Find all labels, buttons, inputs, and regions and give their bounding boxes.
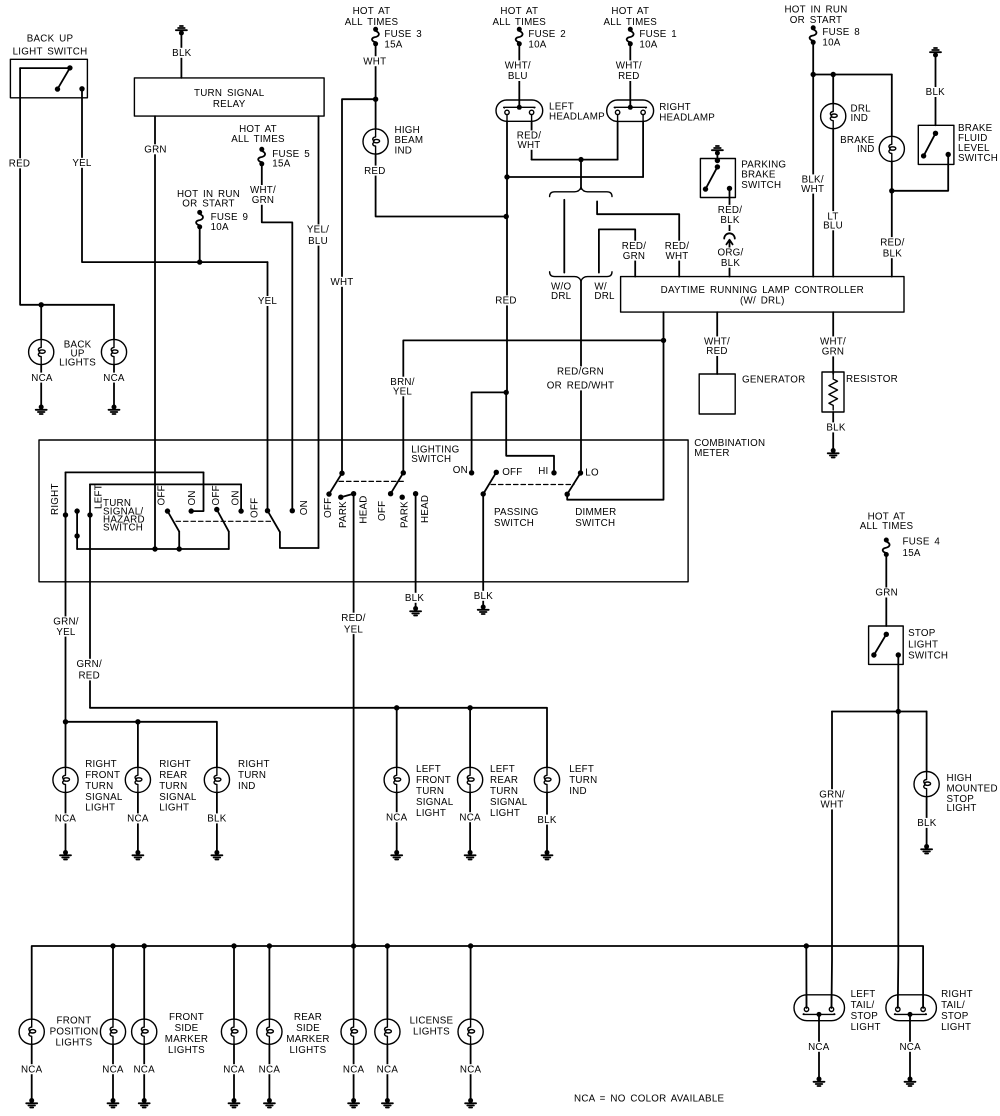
node rear side marker tap 2 xyxy=(351,943,356,948)
svg-text:LIGHT: LIGHT xyxy=(85,802,115,813)
label FUSE 1 10A xyxy=(639,29,677,50)
svg-text:NCA: NCA xyxy=(377,1064,399,1075)
svg-text:OFF: OFF xyxy=(502,467,522,478)
svg-text:SWITCH: SWITCH xyxy=(494,518,534,529)
svg-text:TURN: TURN xyxy=(490,786,518,797)
left turn rail xyxy=(90,708,547,768)
wire LT BLU DRL ind to controller xyxy=(832,129,834,277)
svg-text:BRAKE: BRAKE xyxy=(741,169,776,180)
svg-text:NCA: NCA xyxy=(223,1064,245,1075)
wire GRN/WHT to left tail xyxy=(831,712,834,1009)
ground front side marker right bulb xyxy=(229,1098,240,1108)
ground above parking brake switch xyxy=(712,146,723,156)
label BLK lighting xyxy=(403,593,425,604)
svg-text:SIGNAL: SIGNAL xyxy=(490,797,528,808)
label DRL IND xyxy=(851,103,872,124)
svg-text:HEAD: HEAD xyxy=(420,495,431,523)
wire RED to dimmer HI xyxy=(506,392,554,472)
label NCA front side marker right bulb xyxy=(223,1064,245,1075)
svg-text:HI: HI xyxy=(538,466,548,477)
svg-text:RIGHT: RIGHT xyxy=(941,989,973,1000)
node RED high beam junction xyxy=(504,214,509,219)
high beam indicator bulb xyxy=(363,129,388,154)
wire rear side marker left drop xyxy=(268,946,270,1019)
node WHT branch xyxy=(373,97,378,102)
svg-text:OFF: OFF xyxy=(377,501,388,521)
svg-text:BACK UP: BACK UP xyxy=(27,34,74,45)
svg-text:LIGHTS: LIGHTS xyxy=(56,1037,93,1048)
svg-text:FRONT: FRONT xyxy=(169,1012,204,1023)
right front turn signal bulb xyxy=(53,767,78,792)
svg-text:BLK: BLK xyxy=(926,87,945,98)
wire RED branch to passing ON xyxy=(472,392,507,472)
label BRAKE IND xyxy=(840,135,875,155)
lighting switch pole B arm xyxy=(391,473,404,494)
svg-text:WHT: WHT xyxy=(801,184,824,195)
label WHT/RED generator xyxy=(703,336,732,357)
svg-text:WHT/: WHT/ xyxy=(505,61,531,72)
wire front side marker left drop xyxy=(143,946,145,1019)
label RED/GRN OR RED/WHT xyxy=(547,366,615,391)
node fuse8 junction xyxy=(811,72,816,77)
brake indicator bulb xyxy=(879,136,904,161)
wire BLK relay ground xyxy=(180,34,182,78)
turn signal centre arm xyxy=(76,511,78,549)
turn signal OFF2 contact xyxy=(214,507,219,512)
svg-text:REAR: REAR xyxy=(294,1012,322,1023)
ground above turn signal relay xyxy=(176,26,187,36)
ground above brake fluid level switch xyxy=(930,48,941,58)
wire BLK resistor to ground xyxy=(832,412,834,450)
wire controller to dimmer common xyxy=(567,312,663,500)
turn signal LEFT contact xyxy=(87,512,92,517)
svg-text:OR START: OR START xyxy=(790,15,842,26)
wire inner terminals common xyxy=(532,159,618,161)
svg-text:NCA: NCA xyxy=(343,1064,365,1075)
wire tap to brace xyxy=(580,160,582,189)
wire GRN/RED left contact output xyxy=(89,484,91,707)
svg-text:ALL TIMES: ALL TIMES xyxy=(860,521,914,532)
svg-text:WHT/: WHT/ xyxy=(616,61,642,72)
fuse F5 xyxy=(258,147,265,167)
svg-text:HEAD: HEAD xyxy=(359,495,370,523)
svg-text:SWITCH: SWITCH xyxy=(575,518,615,529)
wire license left drop xyxy=(386,946,388,1019)
svg-text:ALL TIMES: ALL TIMES xyxy=(231,134,285,145)
generator G1 xyxy=(699,374,735,414)
svg-text:TURN: TURN xyxy=(159,781,187,792)
label BLK relay xyxy=(171,48,193,59)
hazard pole1 arm xyxy=(168,511,180,531)
svg-text:RIGHT: RIGHT xyxy=(659,102,691,113)
svg-text:BLK: BLK xyxy=(537,815,556,826)
stop light switch S4 xyxy=(869,626,904,664)
label GRN/RED xyxy=(75,659,104,682)
turn signal relay K1 xyxy=(134,78,324,116)
svg-text:GRN/: GRN/ xyxy=(76,659,102,670)
svg-text:ALL TIMES: ALL TIMES xyxy=(603,17,657,28)
wire left rear turn drop xyxy=(469,708,471,768)
label W/O DRL xyxy=(551,281,572,302)
node brake fluid switch junction xyxy=(889,188,894,193)
wire right rear turn to ground xyxy=(137,793,139,853)
svg-text:RIGHT: RIGHT xyxy=(85,759,117,770)
right turn indicator bulb xyxy=(204,767,229,792)
svg-text:BLU: BLU xyxy=(823,221,843,232)
label GRN stop xyxy=(875,588,898,599)
tail light bus xyxy=(32,946,923,1019)
ground high mounted stop light xyxy=(921,844,932,854)
wire right tail to ground xyxy=(909,1015,911,1079)
front position light left bulb xyxy=(19,1019,44,1044)
svg-text:SWITCH: SWITCH xyxy=(741,180,781,191)
label RED/GRN drl xyxy=(620,241,649,262)
node RED passing branch xyxy=(504,390,509,395)
label WHT fuse3 xyxy=(363,56,386,67)
lighting switch PARK A contact xyxy=(338,495,343,500)
svg-text:STOP: STOP xyxy=(908,628,936,639)
svg-text:FRONT: FRONT xyxy=(416,775,451,786)
node GRN common xyxy=(152,546,157,551)
svg-text:NCA: NCA xyxy=(31,373,53,384)
wire YEL/BLU relay to hazard pole xyxy=(318,116,320,548)
node hazard pole1 common xyxy=(177,546,182,551)
left turn indicator bulb xyxy=(534,767,559,792)
svg-text:REAR: REAR xyxy=(490,775,518,786)
wire to DRL IND xyxy=(832,75,834,104)
label NCA legend xyxy=(574,1094,725,1105)
back up light bulb right xyxy=(101,339,126,364)
passing switch ON contact xyxy=(469,470,474,475)
wire left tail to ground xyxy=(818,1015,820,1079)
node left front turn xyxy=(394,705,399,710)
svg-text:WHT: WHT xyxy=(517,140,540,151)
wire W/ DRL branch to RED/WHT xyxy=(597,201,679,276)
label LO xyxy=(585,467,599,478)
ground left rear turn light xyxy=(465,850,476,860)
label NCA right front turn xyxy=(54,813,76,824)
lighting switch pole A arm xyxy=(329,473,342,494)
label RED main xyxy=(495,295,517,306)
svg-text:TAIL/: TAIL/ xyxy=(941,1000,965,1011)
wire right front turn drop xyxy=(65,722,67,768)
wire to brake ind xyxy=(891,75,893,137)
label DAYTIME RUNNING LAMP CONTROLLER xyxy=(661,285,864,307)
wire front position right drop xyxy=(112,946,114,1019)
wire front position light left bulb to ground xyxy=(31,1044,33,1100)
label NCA front position light right bulb xyxy=(102,1064,124,1075)
turn signal OFF1 contact xyxy=(165,508,170,513)
DRL indicator bulb xyxy=(821,104,846,129)
label RIGHT REAR TURN SIGNAL LIGHT xyxy=(159,759,197,813)
label GRN xyxy=(144,144,167,155)
svg-text:BLK: BLK xyxy=(917,818,936,829)
parking brake switch arm contact xyxy=(703,186,708,191)
turn signal right rail xyxy=(66,471,204,473)
combination meter box xyxy=(39,440,688,582)
wire right headlamp inner terminal xyxy=(617,121,619,159)
svg-text:SIGNAL: SIGNAL xyxy=(159,792,197,803)
svg-text:MARKER: MARKER xyxy=(286,1034,329,1045)
stop light switch arm contact xyxy=(871,652,876,657)
front side marker left bulb xyxy=(132,1019,157,1044)
svg-text:BLK: BLK xyxy=(721,258,740,269)
left tail/stop light xyxy=(794,995,845,1021)
label HOT AT ALL TIMES fuse3 xyxy=(345,6,399,28)
svg-text:PARK: PARK xyxy=(399,501,410,528)
svg-text:TURN SIGNAL: TURN SIGNAL xyxy=(194,88,265,99)
wire RED/GRN OR RED/WHT to dimmer LO xyxy=(580,281,582,473)
wire right back up light to ground xyxy=(113,365,115,407)
svg-text:ON: ON xyxy=(187,490,198,505)
wire license light left bulb to ground xyxy=(386,1044,388,1100)
ground license light left bulb xyxy=(382,1098,393,1108)
label HIGH BEAM IND xyxy=(395,125,424,156)
svg-text:LIGHT: LIGHT xyxy=(490,808,520,819)
wire RED/BLK brake ind to controller xyxy=(891,162,893,277)
stop light switch arm xyxy=(874,634,886,655)
node stop light branch xyxy=(896,709,901,714)
label HOT AT ALL TIMES fuse4 xyxy=(860,511,914,532)
wire RED/BLK parking brake to controller xyxy=(729,188,731,276)
svg-text:IND: IND xyxy=(851,113,869,124)
label YEL hazard xyxy=(256,296,278,307)
svg-text:DAYTIME RUNNING LAMP CONTROLLE: DAYTIME RUNNING LAMP CONTROLLER xyxy=(661,285,864,296)
svg-text:SWITCH: SWITCH xyxy=(908,651,948,662)
node right rear turn xyxy=(135,719,140,724)
right tail/stop light xyxy=(886,995,937,1021)
label FRONT POSITION LIGHTS xyxy=(50,1016,99,1049)
ground front position light left bulb xyxy=(26,1098,37,1108)
label ON passing xyxy=(453,465,468,476)
label WHT/GRN xyxy=(249,185,278,206)
wire WHT/RED controller to generator xyxy=(716,312,718,374)
label OFF passing xyxy=(502,467,522,478)
svg-text:NCA: NCA xyxy=(460,1064,482,1075)
svg-text:ON: ON xyxy=(230,490,241,505)
svg-text:ALL TIMES: ALL TIMES xyxy=(492,17,546,28)
label WHT/BLU xyxy=(503,60,532,82)
svg-text:DRL: DRL xyxy=(594,291,615,302)
label RED xyxy=(8,158,30,169)
label RIGHT FRONT TURN SIGNAL LIGHT xyxy=(85,759,123,813)
dimmer switch arm xyxy=(567,473,580,494)
label STOP LIGHT SWITCH xyxy=(908,628,948,662)
svg-text:BLK: BLK xyxy=(207,814,226,825)
node YEL junction xyxy=(197,259,202,264)
wire W/O DRL branch xyxy=(563,200,565,273)
wire BLK/WHT fuse8 to controller xyxy=(812,42,814,276)
left headlamp xyxy=(496,100,543,121)
brake fluid switch pole contact xyxy=(933,131,938,136)
stop light branch rail xyxy=(832,711,927,713)
wire YEL from back up light switch xyxy=(82,89,268,262)
svg-text:RIGHT: RIGHT xyxy=(159,759,191,770)
label BACK UP LIGHTS xyxy=(59,340,96,369)
hazard pole3 arm xyxy=(268,511,280,532)
label BLK left turn ind xyxy=(536,815,558,826)
label NCA front position light left bulb xyxy=(21,1064,43,1075)
svg-text:OFF: OFF xyxy=(211,485,222,505)
label COMBINATION METER xyxy=(694,438,765,459)
wire front side marker right drop xyxy=(233,946,235,1019)
label RIGHT TAIL/STOP LIGHT xyxy=(941,989,973,1033)
label W/ DRL xyxy=(594,281,615,302)
label BRAKE FLUID LEVEL SWITCH xyxy=(958,123,998,164)
dimmer switch HI contact xyxy=(551,470,556,475)
svg-text:RIGHT: RIGHT xyxy=(238,759,270,770)
lighting switch pole A arm contact xyxy=(326,491,331,496)
wire front position light right bulb to ground xyxy=(112,1044,114,1100)
node license tap 1 xyxy=(385,943,390,948)
parking brake switch S3 xyxy=(700,159,735,198)
svg-text:RED: RED xyxy=(364,166,385,177)
svg-text:RIGHT: RIGHT xyxy=(50,483,61,515)
fuse F3 xyxy=(372,27,379,47)
back up light switch contact xyxy=(67,65,72,70)
wire left front turn to ground xyxy=(396,793,398,853)
svg-text:LO: LO xyxy=(585,467,599,478)
label LEFT REAR TURN SIGNAL LIGHT xyxy=(490,764,528,819)
right headlamp xyxy=(607,100,654,121)
svg-text:FRONT: FRONT xyxy=(85,770,120,781)
node front side marker tap 2 xyxy=(231,943,236,948)
svg-text:FRONT: FRONT xyxy=(57,1016,92,1027)
front side marker right bulb xyxy=(221,1019,246,1044)
svg-text:RED: RED xyxy=(9,159,30,170)
wire right turn ind to ground xyxy=(216,793,218,853)
ground right front turn light xyxy=(60,850,71,860)
daytime running lamp controller U1 xyxy=(621,277,904,313)
label ORG/BLK xyxy=(716,248,745,269)
ground front position light right bulb xyxy=(108,1098,119,1108)
label GENERATOR xyxy=(742,375,805,386)
label NCA right back up xyxy=(103,373,125,384)
svg-text:STOP: STOP xyxy=(851,1011,879,1022)
parking brake switch ground stub xyxy=(716,154,718,160)
brake fluid switch output contact xyxy=(946,152,951,157)
svg-text:BLU: BLU xyxy=(508,71,528,82)
label LIGHTING SWITCH xyxy=(411,444,459,465)
node RED junction headlamps xyxy=(504,174,509,179)
svg-text:BLK: BLK xyxy=(474,591,493,602)
node license tap 2 xyxy=(468,943,473,948)
wire right headlamp outer terminal xyxy=(642,121,644,177)
svg-text:10A: 10A xyxy=(639,39,657,50)
wire BLK passing to ground xyxy=(482,494,484,605)
lighting switch pole A pivot xyxy=(339,471,344,476)
svg-text:OFF: OFF xyxy=(249,498,260,518)
svg-text:HIGH: HIGH xyxy=(947,773,973,784)
wire right front turn to ground xyxy=(65,793,67,853)
ground passing switch xyxy=(478,605,489,615)
turn signal ON1 contact xyxy=(189,508,194,513)
wire RED high beam ind xyxy=(376,154,507,216)
label HOT AT ALL TIMES fuse2 xyxy=(492,6,546,28)
label FUSE 8 10A xyxy=(822,27,860,48)
svg-text:SWITCH: SWITCH xyxy=(411,454,451,465)
node front position tap xyxy=(110,943,115,948)
svg-text:15A: 15A xyxy=(903,548,921,559)
label BLK right turn ind xyxy=(206,813,228,824)
wire left rear turn to ground xyxy=(469,793,471,853)
turn signal left rail to ON2 xyxy=(240,484,242,511)
hazard ON3 contact xyxy=(290,508,295,513)
passing switch OFF contact xyxy=(494,470,499,475)
svg-text:METER: METER xyxy=(694,448,730,459)
wire junction to brake fluid switch xyxy=(892,164,948,190)
svg-text:NCA: NCA xyxy=(133,1064,155,1075)
svg-text:OR START: OR START xyxy=(182,198,234,209)
node left rear turn xyxy=(467,705,472,710)
svg-text:SWITCH: SWITCH xyxy=(958,153,998,164)
back up light bulb left xyxy=(29,339,54,364)
back up light switch S1 xyxy=(10,59,87,98)
label BLK stop light xyxy=(916,818,938,829)
hazard OFF3 contact xyxy=(265,508,270,513)
svg-text:LIGHTS: LIGHTS xyxy=(413,1027,450,1038)
label BLK brake fluid xyxy=(924,87,946,98)
svg-text:NCA: NCA xyxy=(103,373,125,384)
svg-text:GRN: GRN xyxy=(623,251,646,262)
label WHT lighting xyxy=(330,277,353,288)
wire GRN relay to turn signal switch xyxy=(154,116,156,549)
svg-text:TURN: TURN xyxy=(416,786,444,797)
ground front side marker left bulb xyxy=(139,1098,150,1108)
brake fluid switch arm xyxy=(924,133,936,156)
svg-text:IND: IND xyxy=(569,786,587,797)
label NCA front side marker left bulb xyxy=(133,1064,155,1075)
svg-text:IND: IND xyxy=(395,145,413,156)
label HI xyxy=(538,466,548,477)
svg-text:BLK: BLK xyxy=(405,593,424,604)
inline connector ORG/BLK xyxy=(723,231,736,248)
ground left tail light xyxy=(814,1077,825,1087)
hazard pole2 arm to rail xyxy=(228,532,230,549)
fuse F9 xyxy=(196,210,203,230)
back up light switch arm contact xyxy=(55,86,60,91)
svg-text:OFF: OFF xyxy=(157,485,168,505)
ground left turn ind light xyxy=(542,850,553,860)
label REAR SIDE MARKER LIGHTS xyxy=(286,1012,329,1056)
label LEFT TURN IND xyxy=(569,764,597,797)
svg-text:WHT: WHT xyxy=(665,251,688,262)
svg-text:FUSE 3: FUSE 3 xyxy=(384,29,422,40)
label RED high beam xyxy=(364,166,386,177)
svg-text:IND: IND xyxy=(857,144,875,155)
svg-text:REAR: REAR xyxy=(159,770,187,781)
svg-text:(W/ DRL): (W/ DRL) xyxy=(740,296,785,307)
svg-text:GRN: GRN xyxy=(875,588,898,599)
svg-text:HOT AT: HOT AT xyxy=(500,6,538,17)
svg-text:FUSE 4: FUSE 4 xyxy=(903,537,941,548)
license light right bulb xyxy=(458,1019,483,1044)
stop light switch output contact xyxy=(896,652,901,657)
wire left back up light to ground xyxy=(40,365,42,407)
svg-text:LIGHT SWITCH: LIGHT SWITCH xyxy=(13,47,88,58)
svg-text:TURN: TURN xyxy=(85,781,113,792)
label NCA left tail xyxy=(808,1042,830,1053)
wire to left back up light xyxy=(40,305,42,340)
label TURN SIGNAL/HAZARD SWITCH xyxy=(103,498,145,534)
wire fuse9 to junction xyxy=(199,227,201,262)
wire RED from back up light switch xyxy=(20,68,114,305)
svg-text:DIMMER: DIMMER xyxy=(575,507,616,518)
front position light right bulb xyxy=(100,1019,125,1044)
svg-text:RED/: RED/ xyxy=(341,613,365,624)
svg-text:RELAY: RELAY xyxy=(213,99,246,110)
svg-text:ON: ON xyxy=(453,465,468,476)
